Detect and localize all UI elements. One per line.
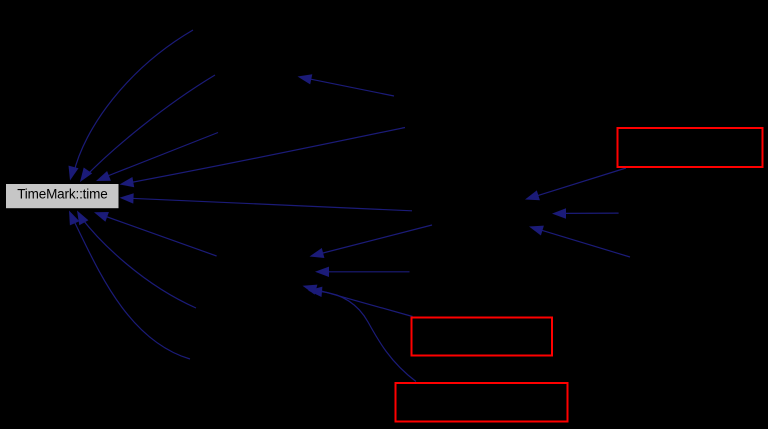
node: truncated caller (top-right red box) xyxy=(618,128,763,167)
edge: caller arc into TimeMark::time bottom-left (from node L) xyxy=(73,219,190,359)
edge: caller line into TimeMark::time right edge (upper) xyxy=(131,128,405,183)
edge: into invisible node F bottom edge xyxy=(541,230,630,257)
edge: from invisible node F into invisible node H top edge xyxy=(321,225,432,254)
edge: caller line into TimeMark::time bottom edge (from node H) xyxy=(106,217,217,257)
edge: horizontal into invisible node H right edge xyxy=(327,271,410,273)
svg-text:TimeMark::time: TimeMark::time xyxy=(17,186,107,201)
edge: caller arc 2 into TimeMark::time (top-left) xyxy=(84,75,215,178)
edge: horizontal into invisible node F right edge xyxy=(564,212,619,214)
node: TimeMark::time (current function, gray box) xyxy=(6,184,119,208)
edge: caller arc into TimeMark::time bottom-left (from node K) xyxy=(82,218,197,308)
edge: caller arc 1 into TimeMark::time (top-left) xyxy=(74,30,194,174)
edge: into invisible node B (from node N1) xyxy=(309,79,394,96)
edge: from top-right red box into invisible node F xyxy=(537,168,626,196)
edge: caller line into TimeMark::time top edge xyxy=(105,133,218,178)
edge: from middle red box into invisible node H xyxy=(314,289,413,317)
node: truncated caller (bottom red box) xyxy=(396,383,568,422)
edge: caller line into TimeMark::time right edge (lower) xyxy=(131,198,412,211)
edge: from bottom red box into invisible node H (S-curve) xyxy=(321,292,416,382)
node: truncated caller (middle red box) xyxy=(412,318,553,356)
